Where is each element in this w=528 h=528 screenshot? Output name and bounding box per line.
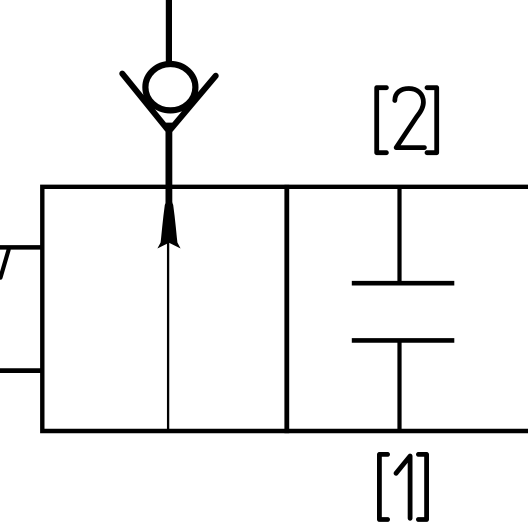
pilot stub upper left [0,245,45,250]
flow path thin line [167,240,169,431]
check valve V1 seat [122,74,215,132]
wire check valve to valve body [165,126,172,208]
label [1] right bracket [418,454,426,519]
label [1] left bracket [379,454,387,519]
blocked port lower wire [397,339,401,432]
valve body envelope [40,185,528,434]
check valve V1 seat vertex fill [161,123,178,133]
check valve V1 circle [145,64,195,110]
spring fragment [1,250,9,278]
port line [2] top [166,0,172,64]
label [2] digit 2 [395,89,425,148]
label [2] right bracket [427,88,437,153]
label [1] digit 1 [396,456,410,518]
label [2] left bracket [377,88,387,153]
envelope divider [284,185,289,434]
blocked port upper bar [352,281,455,286]
blocked port upper wire [397,187,401,285]
pilot stub lower left [0,368,45,373]
blocked port lower bar [352,338,455,343]
flow path arrowhead [157,194,180,249]
